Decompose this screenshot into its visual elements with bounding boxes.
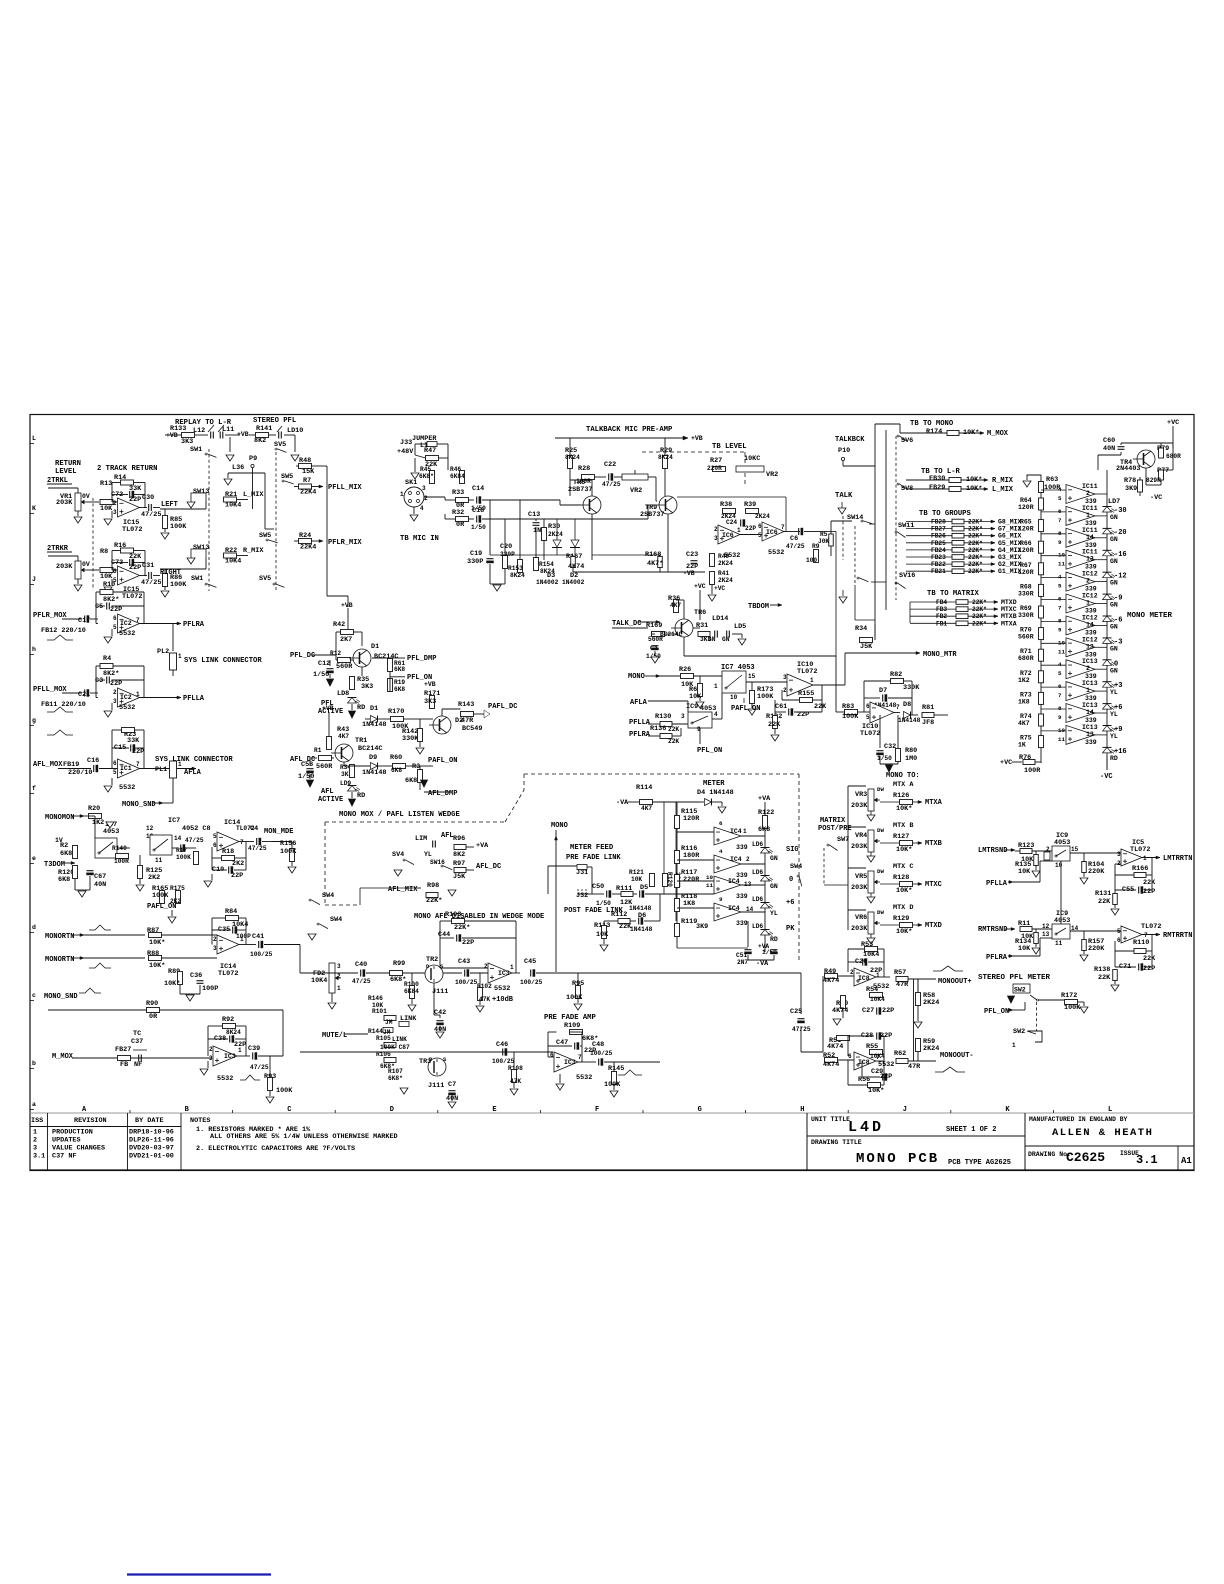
svg-text:8: 8 <box>1058 617 1062 624</box>
svg-text:C39: C39 <box>248 1045 260 1053</box>
wire C6 output down <box>820 531 836 533</box>
svg-text:R138: R138 <box>1094 966 1110 974</box>
svg-text:R144: R144 <box>368 1028 383 1035</box>
wire <box>249 434 255 436</box>
svg-text:220R: 220R <box>707 465 722 472</box>
svg-text:MONO: MONO <box>551 822 568 830</box>
svg-text:IC7: IC7 <box>168 817 180 825</box>
svg-text:TBDOM: TBDOM <box>748 603 769 611</box>
svg-text:G3_MIX: G3_MIX <box>998 554 1022 561</box>
switch contacts slashes <box>208 425 214 432</box>
net PFLLA <box>177 696 181 699</box>
net PFLRA <box>177 622 181 625</box>
svg-text:8K2: 8K2 <box>453 851 465 859</box>
svg-text:R172: R172 <box>1061 992 1077 1000</box>
svg-text:R68: R68 <box>1020 583 1032 590</box>
svg-text:2K24: 2K24 <box>923 999 939 1007</box>
svg-text:22P: 22P <box>462 939 474 947</box>
wire <box>237 499 248 501</box>
feedback wires IC14a <box>239 841 246 843</box>
svg-text:4: 4 <box>1058 574 1062 581</box>
svg-text:METER: METER <box>703 780 725 788</box>
svg-text:MONOMON: MONOMON <box>45 814 74 822</box>
svg-text:g: g <box>32 717 36 724</box>
svg-text:MTXB: MTXB <box>1001 613 1017 620</box>
net MTXB <box>880 842 900 844</box>
svg-text:FB24: FB24 <box>931 547 946 554</box>
ground filled <box>327 679 334 686</box>
svg-text:IC12: IC12 <box>1082 636 1098 643</box>
svg-text:GN: GN <box>1110 602 1118 609</box>
svg-text:5: 5 <box>758 532 762 539</box>
wire IC2b out <box>140 697 161 699</box>
svg-text:TALKBACK MIC PRE-AMP: TALKBACK MIC PRE-AMP <box>586 426 673 434</box>
svg-text:R112: R112 <box>611 911 627 919</box>
svg-text:R126: R126 <box>893 792 909 800</box>
svg-text:DW: DW <box>877 827 884 834</box>
svg-text:IC11: IC11 <box>1082 527 1098 534</box>
net AFLA <box>192 767 196 770</box>
svg-text:14: 14 <box>174 835 182 842</box>
wire IC10a out <box>813 684 845 686</box>
svg-text:J33: J33 <box>400 439 412 447</box>
svg-text:R70: R70 <box>1020 627 1032 634</box>
svg-text:REVISION: REVISION <box>74 1117 107 1125</box>
svg-text:A1: A1 <box>1181 1156 1192 1166</box>
svg-text:RETURN: RETURN <box>55 460 81 468</box>
led chain center <box>764 836 766 952</box>
svg-text:22K*: 22K* <box>968 540 983 547</box>
svg-text:R19: R19 <box>394 679 405 686</box>
svg-text:7: 7 <box>876 1054 880 1061</box>
svg-text:33K: 33K <box>127 737 140 745</box>
svg-text:22K: 22K <box>1098 898 1111 906</box>
svg-text:9: 9 <box>1058 626 1062 633</box>
svg-text:+VB: +VB <box>691 435 703 442</box>
svg-text:AFL_DMP: AFL_DMP <box>428 790 457 798</box>
svg-text:3: 3 <box>213 945 217 952</box>
svg-text:VR4: VR4 <box>855 832 867 840</box>
svg-text:P10: P10 <box>838 447 850 455</box>
svg-text:C45: C45 <box>524 958 536 966</box>
mux IC7a <box>95 838 117 858</box>
svg-text:6K84: 6K84 <box>404 988 419 995</box>
svg-text:GN: GN <box>1110 536 1118 543</box>
svg-text:47/25: 47/25 <box>141 511 161 519</box>
net MTXD <box>880 924 900 926</box>
svg-text:T3DOM: T3DOM <box>44 861 65 869</box>
svg-text:8: 8 <box>1058 530 1062 537</box>
svg-text:1: 1 <box>337 985 341 992</box>
ground <box>187 558 195 564</box>
svg-text:5532: 5532 <box>494 985 510 993</box>
svg-text:L36: L36 <box>232 464 244 472</box>
ground filled <box>351 704 353 710</box>
svg-text:3: 3 <box>783 674 787 681</box>
wires talk <box>693 627 700 629</box>
svg-text:6K8: 6K8 <box>394 666 405 673</box>
svg-text:+VA: +VA <box>758 795 771 803</box>
ground <box>269 1091 271 1097</box>
svg-text:d: d <box>32 924 36 931</box>
wavy <box>935 1067 965 1072</box>
svg-text:TALK: TALK <box>835 492 853 500</box>
svg-text:TL072: TL072 <box>1141 923 1161 931</box>
svg-text:22P: 22P <box>1143 888 1155 896</box>
svg-text:GN: GN <box>770 883 778 890</box>
svg-text:R1: R1 <box>314 747 322 754</box>
svg-text:C2625: C2625 <box>1066 1150 1105 1165</box>
svg-text:NOTES: NOTES <box>190 1117 210 1125</box>
wire mux out <box>712 718 722 720</box>
svg-text:22P: 22P <box>1143 965 1155 973</box>
svg-text:3: 3 <box>1117 851 1121 858</box>
vertical wires <box>489 500 491 555</box>
svg-text:R71: R71 <box>1020 648 1032 655</box>
feedback wires IC14b <box>239 944 246 946</box>
transistor TR5 <box>583 496 601 514</box>
wire down from C41 bus <box>282 1044 284 1056</box>
wires wedge <box>360 887 414 889</box>
svg-text:ALL OTHERS ARE 5% 1/4W UNLESS: ALL OTHERS ARE 5% 1/4W UNLESS OTHERWISE … <box>210 1133 398 1141</box>
led LD7 segment +16 <box>1103 746 1112 748</box>
svg-text:GN: GN <box>770 855 778 862</box>
meter ladder wires <box>676 802 678 816</box>
svg-text:PFL_ON: PFL_ON <box>984 1008 1009 1016</box>
svg-text:LD6: LD6 <box>752 869 763 876</box>
svg-text:8K2*: 8K2* <box>103 596 119 604</box>
led LD7 segment +3 <box>1103 681 1112 683</box>
svg-text:1N4148: 1N4148 <box>362 721 386 729</box>
svg-text:100K: 100K <box>170 523 187 531</box>
svg-text:DRAWING TITLE: DRAWING TITLE <box>811 1139 862 1146</box>
svg-text:J: J <box>32 576 36 583</box>
svg-text:R133: R133 <box>170 425 186 433</box>
svg-text:D1: D1 <box>371 643 379 651</box>
svg-text:22K*: 22K* <box>426 897 442 905</box>
transistor TR3 fet <box>428 1058 446 1076</box>
svg-text:1N4148: 1N4148 <box>629 905 652 912</box>
dashed select line <box>275 452 277 591</box>
svg-text:9: 9 <box>1058 539 1062 546</box>
svg-text:LEVEL: LEVEL <box>55 468 77 476</box>
svg-text:22P: 22P <box>129 564 141 572</box>
mux IC9c <box>1052 924 1070 939</box>
svg-text:10K: 10K <box>596 931 609 939</box>
comparator IC4d <box>714 903 741 921</box>
svg-text:C6: C6 <box>790 535 798 543</box>
wire LEFT bus <box>160 508 206 510</box>
svg-text:1: 1 <box>876 972 880 979</box>
svg-text:-VB: -VB <box>683 570 695 577</box>
svg-text:LD5: LD5 <box>734 623 746 631</box>
svg-text:22K*: 22K* <box>972 606 987 613</box>
ground <box>414 458 416 472</box>
comparator IC12 pin 14 <box>1066 616 1095 635</box>
svg-text:YL: YL <box>424 851 432 858</box>
svg-text:120R: 120R <box>1018 526 1034 533</box>
svg-text:R62: R62 <box>894 1050 906 1058</box>
ground VR4 <box>870 852 872 856</box>
svg-text:IC8: IC8 <box>858 975 870 982</box>
wire to PFLL_MIX <box>294 486 299 488</box>
svg-text:BC214C: BC214C <box>660 631 683 638</box>
svg-text:15: 15 <box>1071 846 1079 853</box>
svg-text:10K*: 10K* <box>896 805 912 813</box>
ground <box>179 985 181 995</box>
dashed wedge box <box>325 821 505 823</box>
svg-text:4053: 4053 <box>103 828 119 836</box>
svg-text:5: 5 <box>866 714 870 721</box>
svg-text:339: 339 <box>736 844 748 851</box>
svg-text:2: 2 <box>850 969 854 976</box>
svg-text:PRE FADE AMP: PRE FADE AMP <box>544 1014 596 1022</box>
wire IC9c out <box>1070 930 1122 932</box>
svg-text:IC4: IC4 <box>728 878 740 885</box>
svg-text:D2: D2 <box>455 717 463 725</box>
svg-text:L4D: L4D <box>848 1119 884 1136</box>
svg-text:L_MIX: L_MIX <box>992 486 1014 494</box>
svg-text:J111: J111 <box>428 1082 444 1090</box>
svg-text:SW4: SW4 <box>322 892 334 900</box>
dashed talk <box>842 516 844 560</box>
wire <box>336 631 341 633</box>
svg-text:RD: RD <box>770 936 778 943</box>
svg-text:VR5: VR5 <box>855 873 867 881</box>
net AFL_DMP wire <box>419 783 421 790</box>
svg-text:R_MIX: R_MIX <box>243 547 264 555</box>
svg-text:IC11: IC11 <box>1082 505 1098 512</box>
led LD7 segment -20 <box>1103 527 1112 529</box>
svg-text:M_MOX: M_MOX <box>987 430 1009 438</box>
led LD7 segment -30 <box>1103 506 1112 508</box>
wire down <box>835 656 837 712</box>
svg-text:TC: TC <box>133 1030 141 1038</box>
svg-text:R127: R127 <box>893 833 909 841</box>
svg-text:R84: R84 <box>225 908 237 916</box>
svg-text:2K7: 2K7 <box>340 636 352 644</box>
svg-text:2N4403: 2N4403 <box>1116 465 1140 473</box>
wire talk down <box>854 585 856 620</box>
svg-text:22P: 22P <box>745 525 756 532</box>
wire IC9b out <box>1070 852 1122 854</box>
svg-text:R119: R119 <box>681 918 697 926</box>
svg-text:40N: 40N <box>94 881 106 889</box>
wire comparator input IC13 <box>1041 686 1066 688</box>
svg-text:22K: 22K <box>1143 955 1156 963</box>
svg-text:6K84: 6K84 <box>450 473 465 480</box>
svg-text:R82: R82 <box>890 671 902 679</box>
svg-text:10KC: 10KC <box>744 455 760 463</box>
svg-text:22K: 22K <box>1143 879 1156 887</box>
svg-text:1/50: 1/50 <box>596 900 611 907</box>
svg-text:11: 11 <box>155 857 163 864</box>
ground <box>732 633 742 635</box>
svg-text:R13: R13 <box>100 480 112 488</box>
svg-text:R4: R4 <box>103 655 111 663</box>
wire <box>264 473 266 529</box>
svg-text:C48: C48 <box>592 1041 604 1049</box>
svg-text:22P: 22P <box>129 496 141 504</box>
svg-text:330P: 330P <box>500 551 515 558</box>
net LMTRRTN <box>1142 857 1160 859</box>
svg-text:YL: YL <box>1110 711 1118 718</box>
led LD7 segment 0 <box>1103 659 1112 661</box>
svg-text:MATRIX: MATRIX <box>820 817 846 825</box>
svg-text:1: 1 <box>136 691 140 698</box>
svg-text:J0K: J0K <box>818 538 829 545</box>
svg-text:TALK_DC: TALK_DC <box>612 620 641 628</box>
resistor R61 <box>388 659 393 672</box>
wavy <box>89 963 111 968</box>
svg-text:8K24: 8K24 <box>565 454 580 461</box>
svg-text:C27: C27 <box>862 1007 874 1015</box>
power -VC meter bottom <box>1106 756 1108 770</box>
svg-text:7: 7 <box>240 839 244 846</box>
svg-text:6: 6 <box>113 760 117 767</box>
svg-text:-VA: -VA <box>756 960 769 968</box>
svg-text:RIGHT: RIGHT <box>160 569 181 577</box>
svg-text:10: 10 <box>730 694 738 701</box>
svg-text:8K24: 8K24 <box>510 572 525 579</box>
svg-text:TL072: TL072 <box>1130 846 1150 854</box>
svg-text:0V: 0V <box>82 561 90 568</box>
svg-text:JF8: JF8 <box>922 719 934 727</box>
svg-text:100R: 100R <box>114 858 129 865</box>
svg-text:b: b <box>32 1060 36 1067</box>
svg-text:22K*: 22K* <box>972 613 987 620</box>
svg-text:8K2: 8K2 <box>254 437 266 445</box>
svg-text:+VB: +VB <box>424 681 436 688</box>
wire <box>48 1009 147 1011</box>
svg-text:FB19: FB19 <box>63 761 79 769</box>
feedback wires IC3a <box>237 1055 246 1057</box>
svg-text:8K24: 8K24 <box>226 1029 241 1036</box>
svg-text:2K24: 2K24 <box>755 513 770 520</box>
svg-text:6: 6 <box>550 1052 554 1059</box>
ground <box>654 651 656 656</box>
wire matrix riser <box>909 602 911 623</box>
svg-text:YL: YL <box>1110 689 1118 696</box>
svg-text:22P: 22P <box>880 1032 892 1040</box>
svg-text:7: 7 <box>1144 932 1148 939</box>
wire comparator input IC12 <box>1041 642 1066 644</box>
svg-text:AFLA: AFLA <box>184 769 202 777</box>
svg-text:47/25: 47/25 <box>786 543 805 550</box>
svg-text:D1: D1 <box>370 705 378 713</box>
svg-text:1: 1 <box>1143 855 1147 862</box>
wire TR9 collector loop <box>677 496 786 498</box>
svg-text:6K8: 6K8 <box>58 876 70 884</box>
svg-text:C73: C73 <box>111 559 123 567</box>
pot feed wire <box>847 786 849 930</box>
feedback wires IC3c <box>578 1061 586 1063</box>
svg-text:L: L <box>1108 1106 1112 1114</box>
svg-text:PFLLA: PFLLA <box>986 880 1008 888</box>
transistor TR6 <box>675 619 693 637</box>
svg-text:RMTRRTN: RMTRRTN <box>1163 932 1192 940</box>
svg-text:R65: R65 <box>1020 519 1032 526</box>
svg-text:5532: 5532 <box>217 1075 233 1083</box>
svg-text:DRP18-10-96: DRP18-10-96 <box>129 1129 174 1137</box>
svg-text:R38: R38 <box>720 501 732 509</box>
ground <box>436 1032 444 1038</box>
feedback wire IC1 <box>140 768 145 770</box>
wire sw2 to r172 <box>1038 999 1064 1001</box>
svg-text:330R: 330R <box>1018 590 1034 597</box>
svg-text:PFLR_MIX: PFLR_MIX <box>328 539 362 547</box>
diode D3 <box>553 540 561 547</box>
ground filled <box>351 792 353 798</box>
svg-text:GN: GN <box>722 636 730 643</box>
svg-text:AFL_DC: AFL_DC <box>476 863 501 871</box>
net PAFL_ON arrow <box>420 765 433 767</box>
op-amp IC8b <box>854 1052 876 1070</box>
svg-text:R90: R90 <box>146 1000 158 1008</box>
svg-text:100R: 100R <box>1024 767 1041 775</box>
svg-text:C22: C22 <box>604 461 616 469</box>
svg-text:120R: 120R <box>1018 547 1034 554</box>
svg-text:ISS: ISS <box>31 1117 43 1125</box>
svg-text:4K74: 4K74 <box>823 977 839 985</box>
svg-text:MONO AFL DISABLED IN WEDGE MOD: MONO AFL DISABLED IN WEDGE MODE <box>414 913 544 921</box>
svg-text:120R: 120R <box>1018 569 1034 576</box>
svg-text:LD6: LD6 <box>752 896 763 903</box>
svg-text:GN: GN <box>1110 558 1118 565</box>
led LD6 0 <box>761 875 770 877</box>
svg-text:2: 2 <box>783 687 787 694</box>
wire <box>144 507 147 509</box>
svg-text:MTX B: MTX B <box>893 822 913 830</box>
svg-text:SW2: SW2 <box>1014 987 1026 994</box>
svg-text:4: 4 <box>1058 661 1062 668</box>
svg-text:22K*: 22K* <box>968 526 983 533</box>
svg-text:R30: R30 <box>548 523 560 531</box>
svg-text:47/25: 47/25 <box>248 845 267 852</box>
svg-text:c: c <box>32 992 36 999</box>
svg-text:1: 1 <box>1012 1042 1016 1049</box>
ground <box>74 517 82 523</box>
svg-text:339: 339 <box>1085 739 1097 746</box>
svg-text:R_MIX: R_MIX <box>992 477 1014 485</box>
svg-text:C30: C30 <box>142 494 154 502</box>
svg-text:1/50: 1/50 <box>471 524 486 531</box>
svg-text:680R: 680R <box>1166 453 1181 460</box>
ground <box>699 697 701 702</box>
svg-text:C: C <box>287 1106 291 1114</box>
svg-text:R97: R97 <box>453 860 465 868</box>
svg-text:1: 1 <box>238 1047 242 1054</box>
svg-text:1V: 1V <box>55 837 63 844</box>
comparator IC4c <box>714 876 741 894</box>
svg-text:NF: NF <box>134 1061 142 1069</box>
svg-text:2: 2 <box>113 500 117 507</box>
svg-text:IC1: IC1 <box>120 765 132 772</box>
dashed sw7 <box>823 848 825 885</box>
svg-text:R28: R28 <box>578 465 590 473</box>
svg-text:MTXC: MTXC <box>1001 606 1017 613</box>
svg-text:2. ELECTROLYTIC CAPACITORS AR: 2. ELECTROLYTIC CAPACITORS ARE ?F/VOLTS <box>196 1145 355 1153</box>
svg-text:6K8: 6K8 <box>391 767 402 774</box>
svg-text:C58: C58 <box>301 761 313 769</box>
svg-text:TALKBCK: TALKBCK <box>835 436 865 444</box>
svg-text:FB: FB <box>120 1061 128 1069</box>
svg-text:H: H <box>800 1106 804 1114</box>
svg-text:SW1: SW1 <box>190 446 202 454</box>
wire post fade <box>547 894 549 921</box>
wire emitter rail <box>592 554 660 556</box>
pot VR2b <box>736 466 764 472</box>
